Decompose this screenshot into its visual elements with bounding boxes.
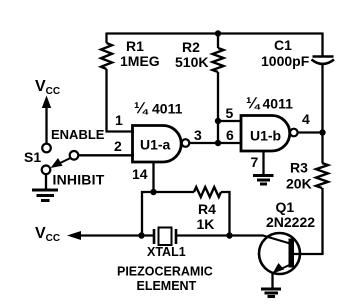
svg-text:INHIBIT: INHIBIT <box>53 172 105 188</box>
svg-text:R3: R3 <box>290 160 308 176</box>
svg-text:2: 2 <box>114 138 122 154</box>
ground (U1-b pin 7) <box>253 176 274 185</box>
node common contact <box>70 151 79 160</box>
svg-text:1MEG: 1MEG <box>120 53 160 69</box>
ground (S1 inhibit) <box>32 190 58 201</box>
wire R4 right lead and drop <box>221 192 230 236</box>
svg-text:PIEZOCERAMIC: PIEZOCERAMIC <box>117 265 213 279</box>
wire R3 bottom to base corner <box>294 188 323 255</box>
wire C1 to pin4 node to R3 <box>321 64 323 163</box>
node XTAL right / R4 <box>226 232 232 238</box>
node pin5 tap <box>215 118 221 124</box>
label R2 <box>175 39 208 70</box>
svg-text:R1: R1 <box>126 38 144 54</box>
label R4 <box>197 201 217 232</box>
Vcc top arrowhead <box>42 96 51 109</box>
wire R4 left lead <box>141 191 194 193</box>
wire pin 5 <box>218 120 242 122</box>
svg-text:5: 5 <box>226 105 234 121</box>
wire R2 bottom drop <box>217 72 219 144</box>
wire Vcc top arrow stem <box>45 106 47 144</box>
wire pin 4 <box>298 131 323 133</box>
node ENABLE contact <box>42 144 51 153</box>
NAND gate U1-b (1/4 4011) <box>241 116 290 152</box>
svg-text:XTAL1: XTAL1 <box>147 245 186 259</box>
NAND gate U1-a (1/4 4011) <box>133 126 182 163</box>
svg-text:4011: 4011 <box>152 101 183 117</box>
wire Q1 emitter drop <box>271 272 273 289</box>
wire right drop to C1 <box>321 33 323 57</box>
output bubble U1-a <box>182 139 190 147</box>
svg-text:20K: 20K <box>286 176 312 192</box>
ground (Q1 emitter) <box>261 289 281 297</box>
svg-text:C1: C1 <box>274 37 292 53</box>
svg-text:14: 14 <box>132 166 148 182</box>
svg-text:4011: 4011 <box>263 96 294 112</box>
wire top rail <box>107 32 323 34</box>
resistor R1 <box>101 43 112 69</box>
svg-text:4: 4 <box>302 111 310 127</box>
wire bottom line Vcc to XTAL <box>78 234 154 236</box>
svg-text:¼: ¼ <box>134 100 149 117</box>
base lead <box>294 253 323 255</box>
node top rail / R2 <box>215 30 221 36</box>
node INHIBIT contact <box>42 166 51 175</box>
resistor R4 <box>194 187 221 197</box>
wire XTAL to Q1 <box>176 234 264 236</box>
output bubble U1-b <box>290 129 298 137</box>
label C1 <box>261 37 310 69</box>
svg-text:2N2222: 2N2222 <box>266 214 315 230</box>
transistor Q1 2N2222 <box>259 233 323 274</box>
svg-text:1K: 1K <box>197 216 215 232</box>
svg-text:¼: ¼ <box>246 95 261 112</box>
Vcc bottom arrowhead <box>67 231 81 240</box>
node XTAL left <box>138 232 144 238</box>
svg-text:Q1: Q1 <box>276 199 295 215</box>
label R3 <box>286 160 312 192</box>
svg-text:U1-a: U1-a <box>140 136 171 152</box>
node pin14 / R4 <box>150 189 156 195</box>
emitter arrowhead <box>273 263 285 274</box>
wire pin 2 <box>79 154 135 156</box>
svg-text:1: 1 <box>115 112 123 128</box>
svg-text:510K: 510K <box>175 54 208 70</box>
svg-text:S1: S1 <box>24 149 41 165</box>
emitter lead diagonal <box>276 265 291 272</box>
svg-text:U1-b: U1-b <box>250 127 281 143</box>
node junction dots <box>138 30 325 238</box>
svg-text:6: 6 <box>226 127 234 143</box>
svg-text:R2: R2 <box>182 39 200 55</box>
wire R1 bottom to pin1 corner <box>105 69 107 132</box>
XTAL1 piezo symbol <box>154 228 176 246</box>
switch S1 arm <box>57 158 71 165</box>
wire pin 14 <box>152 161 154 192</box>
resistor R2 <box>213 48 224 72</box>
switch S1 contacts <box>42 144 79 174</box>
wire pin 3 to pin 6 <box>189 142 242 144</box>
label R1 <box>120 38 160 69</box>
wire pin 7 <box>262 150 264 175</box>
wire left drop top lead <box>105 33 107 44</box>
svg-text:ENABLE: ENABLE <box>51 127 105 142</box>
resistor R3 <box>316 163 328 188</box>
wire S1 inhibit to ground <box>45 174 47 190</box>
svg-text:3: 3 <box>194 127 202 143</box>
wire left jog pin14 to bottom line <box>141 191 143 236</box>
capacitor C1 <box>312 57 335 65</box>
svg-text:R4: R4 <box>198 201 216 217</box>
wire pin 1 <box>106 130 135 132</box>
node pin3/pin6 <box>215 140 221 146</box>
svg-text:7: 7 <box>251 154 259 170</box>
svg-text:ELEMENT: ELEMENT <box>137 279 197 293</box>
node pin4 / C1 / R3 <box>319 129 325 135</box>
svg-text:1000pF: 1000pF <box>261 53 310 69</box>
collector lead diagonal <box>263 236 290 244</box>
wire mid drop top lead <box>217 33 219 49</box>
